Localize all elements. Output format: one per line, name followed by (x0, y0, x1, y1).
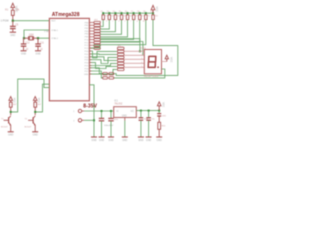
junction VO b (148, 110, 150, 112)
resistor row R2-R10 (100, 11, 158, 22)
wire display lower right pin (114, 69, 165, 78)
wire staircase seg5 (100, 20, 127, 37)
svg-text:9: 9 (92, 45, 93, 47)
ground GND under C5 (10, 32, 16, 37)
ground GND under C10 (138, 137, 144, 142)
svg-text:GND: GND (146, 140, 151, 142)
wire maze m3 (89, 53, 116, 56)
7-segment display DIS1 (141, 47, 162, 78)
svg-text:220: 220 (135, 16, 138, 18)
svg-text:VO: VO (131, 111, 135, 113)
wire XTAL1 net (24, 30, 49, 38)
wire maze m4 (89, 57, 116, 61)
svg-text:dp: dp (143, 20, 145, 22)
svg-text:VCC: VCC (161, 102, 164, 107)
ground GND under regulator (122, 137, 128, 142)
svg-text:5: 5 (92, 34, 93, 36)
svg-text:220: 220 (147, 16, 150, 18)
svg-text:GND: GND (108, 140, 113, 142)
wire maze m8 (89, 69, 116, 74)
capacitor C8 (99, 111, 114, 137)
wire W1 to display pin1 (100, 39, 139, 52)
wire staircase seg2 (100, 20, 109, 30)
svg-text:R6: R6 (125, 11, 127, 13)
svg-text:R2: R2 (101, 11, 103, 13)
wire VI rail (84, 110, 114, 112)
svg-text:100u/35V: 100u/35V (104, 125, 114, 127)
junction RST node (12, 20, 14, 22)
resistor R1 10k (5, 8, 20, 20)
junction VO a (140, 110, 142, 112)
svg-text:220: 220 (104, 16, 107, 18)
ground GND under C13 (146, 137, 152, 142)
IC U1 right pin names (84, 22, 89, 76)
svg-text:C11: C11 (40, 41, 45, 44)
capacitor C9 (108, 111, 118, 137)
svg-text:1 PGM: 1 PGM (1, 19, 9, 23)
LED power indicator (157, 111, 166, 123)
capacitor C13 (146, 111, 154, 137)
wire maze m6 (89, 63, 116, 69)
wire loop L1 to T1 (11, 79, 50, 112)
svg-text:R5: R5 (119, 11, 121, 13)
svg-text:GND: GND (84, 74, 89, 76)
capacitor C11 (35, 38, 44, 51)
svg-text:100n: 100n (114, 119, 118, 121)
display right pin to VCC flag (162, 55, 174, 62)
wire staircase seg6 (100, 20, 133, 40)
junction W1 display (139, 50, 141, 52)
svg-text:2: 2 (92, 25, 93, 27)
svg-text:1: 1 (92, 22, 93, 24)
power flag VCC at R1 (11, 3, 19, 13)
capacitor C12 (21, 38, 30, 51)
wire SJ1 feed (89, 68, 102, 74)
svg-text:XTAL1: XTAL1 (51, 29, 58, 32)
svg-text:C12: C12 (25, 41, 30, 44)
svg-text:220: 220 (116, 16, 119, 18)
svg-text:e: e (125, 20, 126, 22)
ground GND under C8 (99, 137, 105, 142)
svg-text:8: 8 (92, 42, 93, 44)
svg-text:GND: GND (21, 54, 26, 56)
svg-text:R9: R9 (143, 11, 145, 13)
wire staircase seg7 (100, 20, 139, 42)
svg-text:GND: GND (10, 35, 15, 37)
svg-text:10u: 10u (151, 119, 154, 121)
junction X1-2 node (93, 119, 95, 121)
svg-text:16M: 16M (29, 33, 34, 36)
svg-text:BC547: BC547 (1, 127, 8, 129)
svg-text:d: d (119, 20, 120, 22)
wire W2 to display pin2 (100, 42, 142, 56)
ground GND under C9 (108, 137, 114, 142)
svg-text:GND: GND (157, 140, 162, 142)
op IC U1 ATmega328 body (49, 18, 89, 100)
pin header JP2 pin numbers (91, 22, 93, 50)
wire staircase seg3 (100, 20, 115, 32)
transistor stage T1 (1, 97, 17, 137)
svg-text:GND: GND (35, 54, 40, 56)
svg-text:4: 4 (92, 31, 93, 33)
transistor stage T2 (25, 97, 42, 137)
resistor R11 (158, 122, 166, 136)
power flag VCC 5V out (157, 102, 164, 111)
svg-text:b: b (106, 20, 107, 22)
IC U1 pin stubs right upper (89, 23, 93, 49)
svg-text:BC547: BC547 (25, 127, 32, 129)
solder jumper SJ1 (103, 73, 114, 75)
wire R10 loop around display (114, 20, 178, 76)
wire IC ground to rail (89, 85, 94, 137)
junction VI rail b (110, 110, 112, 112)
svg-text:a: a (100, 20, 101, 22)
ground GND under IC wire (91, 137, 97, 142)
wire maze m7 (89, 63, 116, 65)
svg-text:ATmega328: ATmega328 (52, 12, 80, 18)
svg-text:LED: LED (162, 115, 166, 117)
solder jumper SJ2 (103, 77, 114, 79)
svg-text:8-35V: 8-35V (83, 104, 97, 110)
svg-text:g: g (137, 20, 138, 22)
capacitor C10 (139, 111, 148, 137)
svg-text:220: 220 (155, 16, 158, 18)
ground GND under R11 (156, 137, 162, 142)
capacitor C5 (10, 21, 19, 32)
svg-text:GND: GND (122, 116, 127, 118)
svg-text:R4: R4 (113, 11, 115, 13)
ground GND under C11 (35, 51, 41, 56)
connector X1-2 (73, 119, 84, 123)
pin header JP1 (117, 45, 124, 70)
wire SJ2 feed (89, 71, 102, 78)
svg-text:220: 220 (110, 16, 113, 18)
svg-text:GND: GND (91, 140, 96, 142)
svg-text:7: 7 (92, 39, 93, 41)
wire loop L2 to T2 (35, 84, 49, 112)
wire VCC rail top (103, 12, 153, 14)
svg-text:GND: GND (33, 135, 38, 137)
wire X1-2 to ground rail (84, 119, 94, 121)
svg-text:78L05Z: 78L05Z (114, 103, 123, 106)
crystal Q1 16MHz (24, 30, 50, 40)
display pin lines left (124, 51, 144, 67)
svg-text:R7: R7 (131, 11, 133, 13)
junction VO c (158, 110, 160, 112)
wire VO rail (136, 110, 159, 112)
svg-text:DIS1: DIS1 (141, 47, 147, 50)
ground GND under C12 (21, 51, 27, 56)
wire RST net (13, 20, 50, 22)
svg-text:VCC: VCC (170, 57, 174, 63)
svg-text:R3: R3 (107, 11, 109, 13)
svg-text:VCC: VCC (37, 98, 40, 103)
connector X1-1 (73, 109, 84, 113)
display pin numbers left (141, 50, 142, 68)
wire XTAL2 net (38, 37, 49, 39)
junction XTAL1 node (23, 37, 25, 39)
wire staircase seg4 (100, 20, 121, 35)
wire staircase seg1 (100, 20, 103, 27)
svg-text:VCC: VCC (13, 98, 16, 103)
svg-text:VI: VI (116, 111, 119, 113)
svg-text:220: 220 (141, 16, 144, 18)
svg-text:VCC: VCC (155, 6, 159, 12)
svg-text:GND: GND (138, 140, 143, 142)
wire regulator ground (124, 118, 126, 137)
svg-text:c: c (112, 20, 113, 22)
wire maze m1 (89, 45, 99, 48)
pin header JP2 (94, 20, 101, 50)
wire staircase seg8 (100, 20, 145, 45)
junction VI rail a (101, 110, 103, 112)
svg-text:3: 3 (92, 28, 93, 30)
wire maze m5 (89, 57, 116, 63)
svg-text:R8: R8 (137, 11, 139, 13)
svg-text:XTAL2: XTAL2 (51, 37, 58, 40)
svg-text:RST: RST (51, 21, 56, 23)
junction XTAL2 node (37, 37, 39, 39)
voltage regulator IC1 7805 (114, 100, 137, 118)
svg-text:GND: GND (122, 140, 127, 142)
svg-text:GND: GND (99, 140, 104, 142)
svg-text:220: 220 (122, 16, 125, 18)
svg-text:220: 220 (128, 16, 131, 18)
svg-text:GND: GND (8, 135, 13, 137)
power flag VCC top right (151, 5, 159, 13)
IC U1 pin stubs right lower (89, 48, 91, 74)
svg-text:6: 6 (92, 37, 93, 39)
wire maze m2 (89, 51, 116, 58)
